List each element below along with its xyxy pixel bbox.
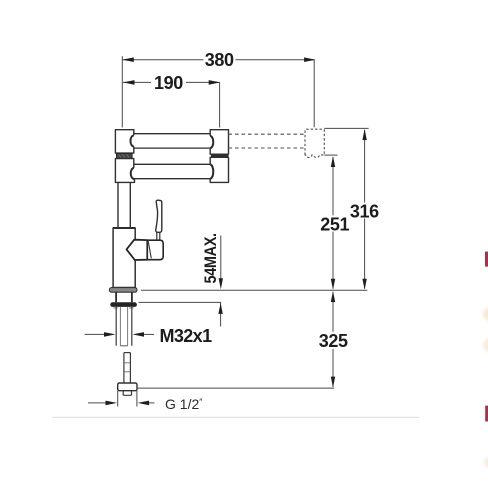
G1/2 extension lines xyxy=(118,391,137,407)
handle lever blade xyxy=(156,200,162,232)
handle cartridge housing xyxy=(147,240,163,260)
handle cone wedge xyxy=(127,240,148,260)
faded orange bullet 3 xyxy=(484,457,488,469)
svg-text:316: 316 xyxy=(350,201,379,221)
right elbow upper block xyxy=(210,130,228,155)
line from ghost fitting top to 316 xyxy=(324,127,368,129)
deck reference line xyxy=(141,289,367,291)
left upper swivel block xyxy=(115,130,133,153)
right elbow lower tube ball cap xyxy=(210,164,213,178)
inlet tail piece xyxy=(123,391,131,396)
svg-text:54MAX.: 54MAX. xyxy=(202,233,220,283)
shank end cap xyxy=(120,345,127,347)
svg-text:325: 325 xyxy=(319,331,348,351)
nut washer feet xyxy=(113,307,117,309)
dimension 251 line xyxy=(332,157,334,289)
54MAX upper arrow (down) xyxy=(219,278,223,289)
dashed extended arm tube xyxy=(229,134,305,148)
dimension 380 line xyxy=(122,60,314,128)
dimension 316 arrowheads xyxy=(362,129,366,290)
svg-text:190: 190 xyxy=(154,73,183,93)
G1/2 arrows and leaders xyxy=(88,401,154,406)
left joint knurled band xyxy=(116,153,132,158)
dimension 380 arrowheads xyxy=(122,57,315,62)
faucet body cylinder xyxy=(113,228,135,288)
svg-text:M32x1: M32x1 xyxy=(159,326,212,346)
threaded shank inner walls xyxy=(120,307,127,346)
dimension 251 arrowheads xyxy=(331,156,335,290)
left lower swivel block xyxy=(115,159,134,183)
mounting neck xyxy=(116,292,132,302)
faded orange bullet 2 xyxy=(483,338,488,353)
page divider rule xyxy=(52,416,419,418)
left lower block ball notch xyxy=(131,168,135,179)
right elbow lower block xyxy=(210,157,228,182)
base flange xyxy=(109,288,137,293)
lower arm tube xyxy=(134,164,210,178)
nut underside reference line with corner xyxy=(139,302,221,326)
svg-text:380: 380 xyxy=(205,50,234,70)
extension line left shared (380/190) xyxy=(121,56,123,127)
threaded shank outer walls xyxy=(116,307,132,346)
upper arm tube xyxy=(134,134,210,148)
body step line xyxy=(113,227,136,229)
54MAX upper line xyxy=(220,236,222,279)
supply pipe thread ticks xyxy=(124,363,130,372)
ghost outlet fitting (extended position) xyxy=(305,129,324,157)
left upper block ball notch xyxy=(131,135,134,146)
locking nut xyxy=(110,302,137,307)
line from ghost fitting bottom to 251 xyxy=(324,154,337,156)
handle lever stem xyxy=(157,232,160,240)
faded orange bullet 1 xyxy=(483,307,488,321)
svg-text:G 1/2″: G 1/2″ xyxy=(165,396,203,412)
right elbow upper tube ball cap xyxy=(210,136,213,148)
inlet fitting nut xyxy=(118,383,137,391)
dimension 325 line xyxy=(332,292,334,387)
riser column xyxy=(118,182,130,227)
inlet bottom reference line xyxy=(137,387,334,389)
dimension 325 arrowheads xyxy=(331,291,335,388)
right elbow pivot dark band xyxy=(211,154,229,157)
cartridge inner edge xyxy=(148,241,151,258)
red page marker top xyxy=(485,252,488,267)
red page marker bottom xyxy=(485,406,488,422)
M32x1 arrows and leaders xyxy=(85,332,154,337)
dimension 316 line xyxy=(364,130,366,289)
supply pipe xyxy=(124,353,130,383)
dimension 190 line xyxy=(123,82,220,127)
svg-text:251: 251 xyxy=(320,214,349,234)
dimension 190 arrowheads xyxy=(123,80,220,85)
54MAX lower arrow (up) xyxy=(218,303,222,314)
